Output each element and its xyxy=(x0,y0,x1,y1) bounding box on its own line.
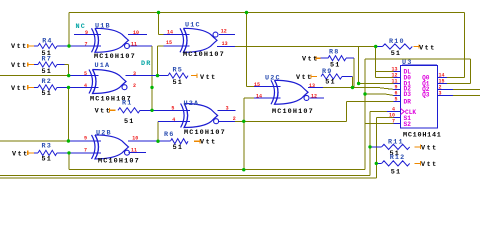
svg-text:4: 4 xyxy=(172,117,175,123)
svg-text:51: 51 xyxy=(391,169,401,177)
svg-text:R5: R5 xyxy=(173,66,183,74)
svg-text:Vtt: Vtt xyxy=(12,151,29,159)
svg-text:Vtt: Vtt xyxy=(296,74,313,82)
svg-text:51: 51 xyxy=(325,78,335,86)
svg-text:S2: S2 xyxy=(404,121,412,128)
svg-text:R6: R6 xyxy=(164,131,174,139)
svg-text:10: 10 xyxy=(133,30,139,36)
svg-text:10: 10 xyxy=(132,136,138,142)
svg-text:51: 51 xyxy=(42,90,52,98)
svg-text:7: 7 xyxy=(392,119,395,125)
svg-text:R10: R10 xyxy=(389,38,405,46)
svg-text:R2: R2 xyxy=(42,78,52,86)
svg-text:D3: D3 xyxy=(404,91,412,98)
svg-text:MC10H107: MC10H107 xyxy=(183,51,225,59)
svg-text:14: 14 xyxy=(167,29,173,35)
svg-text:2: 2 xyxy=(233,116,236,122)
svg-text:5: 5 xyxy=(84,71,87,77)
svg-text:Vtt: Vtt xyxy=(421,161,438,169)
svg-text:R4: R4 xyxy=(42,37,52,45)
svg-text:U2A: U2A xyxy=(184,100,200,108)
svg-text:51: 51 xyxy=(391,50,401,58)
svg-text:12: 12 xyxy=(311,93,317,99)
svg-text:R7: R7 xyxy=(42,56,52,64)
svg-text:15: 15 xyxy=(254,82,260,88)
svg-text:U2B: U2B xyxy=(96,130,112,138)
svg-text:7: 7 xyxy=(85,42,88,48)
svg-text:13: 13 xyxy=(222,41,228,47)
svg-text:Vtt: Vtt xyxy=(200,74,217,82)
svg-text:2: 2 xyxy=(133,83,136,89)
svg-text:15: 15 xyxy=(166,40,172,46)
svg-text:9: 9 xyxy=(85,30,88,36)
svg-text:MC10H107: MC10H107 xyxy=(98,157,140,165)
svg-text:R12: R12 xyxy=(390,154,406,162)
svg-text:U2C: U2C xyxy=(265,75,281,83)
svg-text:R11: R11 xyxy=(388,138,404,146)
svg-text:4: 4 xyxy=(84,83,87,89)
svg-text:U1C: U1C xyxy=(185,22,201,30)
svg-text:51: 51 xyxy=(124,118,134,126)
svg-text:Vtt: Vtt xyxy=(11,43,28,51)
svg-text:3: 3 xyxy=(439,91,442,97)
svg-text:9: 9 xyxy=(84,136,87,142)
svg-text:Vtt: Vtt xyxy=(302,56,319,64)
svg-text:12: 12 xyxy=(221,28,227,34)
svg-text:51: 51 xyxy=(173,79,183,87)
svg-text:5: 5 xyxy=(171,106,174,112)
svg-text:3: 3 xyxy=(226,106,229,112)
svg-text:Vtt: Vtt xyxy=(421,145,438,153)
svg-text:MC10H107: MC10H107 xyxy=(94,53,136,61)
svg-text:Vtt: Vtt xyxy=(200,139,217,147)
svg-text:11: 11 xyxy=(131,148,137,154)
svg-text:51: 51 xyxy=(42,68,52,76)
svg-text:DR: DR xyxy=(404,99,412,106)
svg-text:R3: R3 xyxy=(42,143,52,151)
svg-text:Vtt: Vtt xyxy=(11,85,28,93)
svg-text:MC10H107: MC10H107 xyxy=(184,129,226,137)
svg-text:U3: U3 xyxy=(402,59,412,67)
svg-text:11: 11 xyxy=(131,42,137,48)
svg-text:Vtt: Vtt xyxy=(419,45,436,53)
svg-text:R9: R9 xyxy=(322,68,332,76)
svg-text:51: 51 xyxy=(42,156,52,164)
svg-text:U1A: U1A xyxy=(95,62,111,70)
svg-text:Q3: Q3 xyxy=(422,92,430,99)
svg-text:Vtt: Vtt xyxy=(95,108,112,116)
svg-text:51: 51 xyxy=(173,144,183,152)
svg-text:7: 7 xyxy=(84,148,87,154)
svg-text:R8: R8 xyxy=(329,48,339,56)
svg-text:13: 13 xyxy=(309,83,315,89)
svg-text:5: 5 xyxy=(394,97,397,103)
svg-text:U1B: U1B xyxy=(95,23,111,31)
svg-text:R1: R1 xyxy=(122,100,132,108)
svg-text:MC10H141: MC10H141 xyxy=(403,132,442,140)
svg-text:3: 3 xyxy=(133,71,136,77)
svg-text:Vtt: Vtt xyxy=(11,62,28,70)
svg-text:MC10H107: MC10H107 xyxy=(272,108,314,116)
svg-text:DR: DR xyxy=(141,60,151,68)
svg-text:6: 6 xyxy=(394,91,397,97)
svg-text:14: 14 xyxy=(256,93,262,99)
